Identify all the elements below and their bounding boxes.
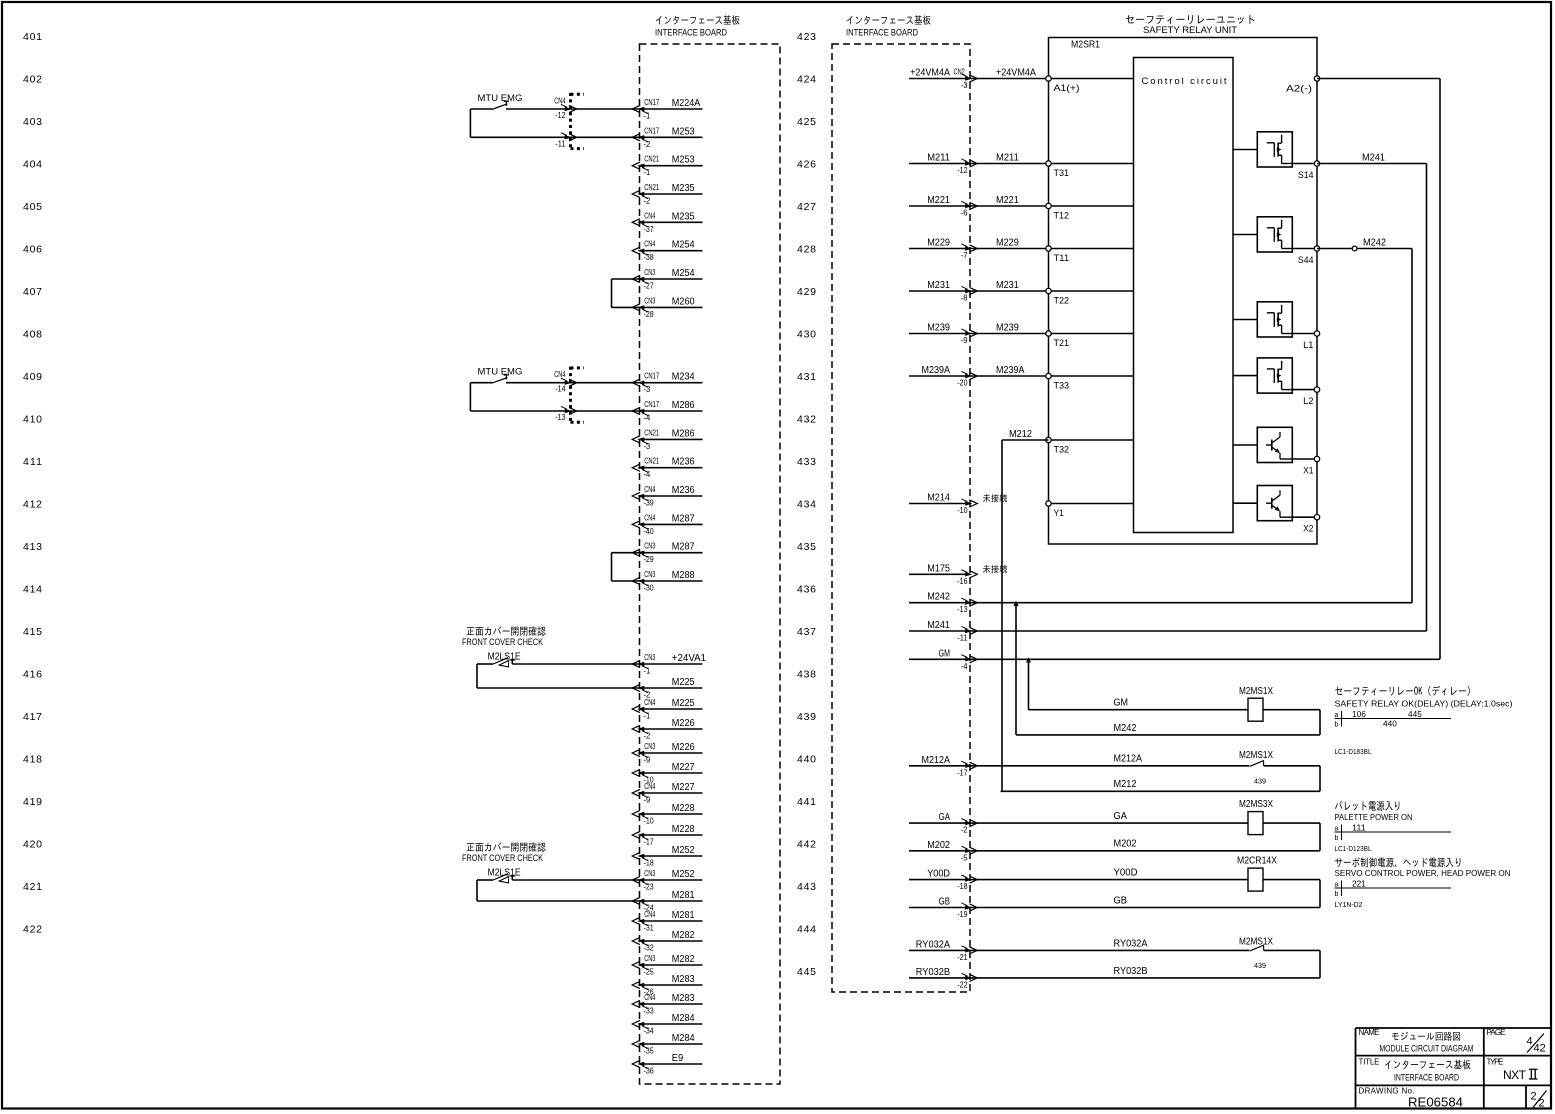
annotation: palette power on — [1335, 801, 1452, 853]
svg-text:-1: -1 — [644, 112, 651, 121]
svg-text:427: 427 — [797, 201, 816, 213]
svg-text:-18: -18 — [957, 882, 968, 891]
svg-text:42: 42 — [1534, 1043, 1546, 1055]
svg-text:SERVO CONTROL POWER, HEAD POWE: SERVO CONTROL POWER, HEAD POWER ON — [1335, 868, 1511, 878]
svg-text:429: 429 — [797, 286, 816, 298]
connector pin CN2-2 net GA — [909, 812, 977, 835]
terminal S44 — [1298, 246, 1320, 266]
connector pin CN2-17 net M212A — [909, 755, 977, 778]
svg-text:S44: S44 — [1298, 255, 1314, 266]
svg-text:-11: -11 — [555, 139, 566, 148]
wire M231 to relay unit — [970, 280, 1049, 291]
svg-text:435: 435 — [797, 541, 816, 553]
terminal T22 — [1046, 288, 1134, 306]
svg-text:CN4: CN4 — [554, 370, 566, 379]
svg-text:-1: -1 — [644, 667, 651, 676]
connector pin CN2-3 net +24VM4A — [909, 68, 977, 91]
svg-text:FRONT COVER CHECK: FRONT COVER CHECK — [462, 853, 543, 863]
connector pin CN3-29 net M287 — [632, 542, 702, 565]
svg-text:-10: -10 — [644, 817, 655, 826]
svg-text:M212: M212 — [1009, 429, 1032, 440]
svg-text:M212: M212 — [1114, 779, 1137, 790]
svg-text:M254: M254 — [672, 268, 695, 279]
terminal Y1 — [1046, 501, 1134, 519]
svg-text:-30: -30 — [644, 584, 655, 593]
annotation: servo control power, head power on — [1335, 857, 1511, 909]
svg-text:439: 439 — [797, 711, 816, 723]
svg-text:NAME: NAME — [1359, 1028, 1380, 1037]
svg-text:-9: -9 — [644, 796, 651, 805]
svg-text:-2: -2 — [644, 197, 651, 206]
svg-text:CN21: CN21 — [644, 155, 659, 164]
svg-text:M286: M286 — [672, 428, 695, 439]
svg-text:-7: -7 — [961, 251, 968, 260]
svg-text:M225: M225 — [672, 677, 695, 688]
svg-text:MTU EMG: MTU EMG — [478, 93, 523, 104]
svg-text:-10: -10 — [957, 506, 968, 515]
svg-text:M229: M229 — [996, 238, 1019, 249]
svg-text:PALETTE POWER ON: PALETTE POWER ON — [1335, 812, 1413, 822]
svg-text:X1: X1 — [1303, 466, 1313, 477]
connector pin -26 net M283 — [632, 974, 702, 997]
wire loop CN3-27 to CN3-28 — [612, 279, 640, 307]
svg-text:M286: M286 — [672, 400, 695, 411]
connector pin CN4-31 net M281 — [632, 910, 702, 933]
svg-text:M2SR1: M2SR1 — [1071, 40, 1100, 51]
svg-text:LC1-D183BL: LC1-D183BL — [1335, 747, 1372, 756]
svg-text:M253: M253 — [672, 126, 695, 137]
connector pin -2 net M225 — [632, 677, 702, 700]
svg-text:M242: M242 — [1114, 723, 1137, 734]
svg-text:RE06584: RE06584 — [1408, 1095, 1463, 1110]
svg-text:T12: T12 — [1054, 211, 1070, 222]
svg-text:CN4: CN4 — [644, 211, 656, 220]
svg-text:M2CR14X: M2CR14X — [1237, 856, 1277, 867]
svg-text:439: 439 — [1254, 777, 1266, 786]
svg-text:b: b — [1335, 891, 1339, 898]
connector pin -24 net M281 — [632, 890, 702, 913]
svg-text:M202: M202 — [1114, 839, 1137, 850]
svg-text:TITLE: TITLE — [1359, 1058, 1380, 1067]
wire M221 to relay unit — [970, 195, 1049, 206]
wire A2(-) to GM bus — [1317, 79, 1440, 660]
svg-text:-13: -13 — [957, 605, 968, 614]
line numbers 423-445 — [797, 31, 816, 978]
svg-text:436: 436 — [797, 584, 816, 596]
terminal T32 — [1046, 437, 1134, 455]
svg-text:M228: M228 — [672, 803, 695, 814]
interface board (right) dashed outline — [832, 44, 970, 992]
connector pin CN2-5 net M202 — [909, 840, 977, 863]
terminal X2 — [1303, 515, 1320, 535]
control circuit block — [1134, 58, 1234, 533]
switch MTU EMG (upper) — [470, 93, 639, 150]
svg-text:-32: -32 — [644, 944, 655, 953]
svg-text:S14: S14 — [1298, 170, 1314, 181]
svg-text:+24VM4A: +24VM4A — [996, 68, 1036, 79]
svg-text:428: 428 — [797, 244, 816, 256]
svg-text:M2MS3X: M2MS3X — [1239, 799, 1273, 810]
svg-text:M2MS1X: M2MS1X — [1239, 937, 1273, 948]
svg-text:445: 445 — [1408, 710, 1422, 719]
svg-text:423: 423 — [797, 31, 816, 43]
svg-text:445: 445 — [797, 966, 816, 978]
svg-text:404: 404 — [23, 159, 42, 171]
svg-text:CN3: CN3 — [644, 653, 656, 662]
svg-text:M221: M221 — [996, 195, 1019, 206]
relay contact M2MS1X rung (M212A / M212) — [970, 750, 1320, 791]
connector pin CN17-2 net M253 — [632, 126, 702, 149]
svg-text:M227: M227 — [672, 782, 695, 793]
svg-text:426: 426 — [797, 159, 816, 171]
terminal S14 — [1298, 161, 1320, 181]
svg-text:-21: -21 — [957, 953, 968, 962]
svg-text:-4: -4 — [961, 662, 968, 671]
svg-text:+24VA1: +24VA1 — [672, 653, 707, 664]
svg-text:-3: -3 — [961, 81, 968, 90]
svg-text:CN17: CN17 — [644, 126, 659, 135]
svg-text:M234: M234 — [672, 372, 695, 383]
svg-text:106: 106 — [1352, 710, 1366, 719]
svg-text:CN3: CN3 — [644, 742, 656, 751]
connector pin CN17-1 net M224A — [632, 98, 702, 121]
relay coil M2CR14X rung (Y00D / GB) — [970, 856, 1320, 908]
svg-text:DRAWING No.: DRAWING No. — [1359, 1087, 1415, 1096]
svg-text:CN4: CN4 — [644, 782, 656, 791]
connector pin CN2-18 net Y00D — [909, 869, 977, 892]
svg-text:440: 440 — [1383, 720, 1397, 729]
svg-text:439: 439 — [1254, 961, 1266, 970]
svg-text:420: 420 — [23, 839, 42, 851]
svg-text:M253: M253 — [672, 155, 695, 166]
svg-text:-37: -37 — [644, 225, 655, 234]
svg-text:4: 4 — [1527, 1036, 1533, 1048]
svg-text:CN17: CN17 — [644, 372, 659, 381]
svg-text:401: 401 — [23, 31, 42, 43]
svg-text:A2(-): A2(-) — [1286, 84, 1312, 95]
svg-text:-17: -17 — [957, 768, 968, 777]
svg-text:CN3: CN3 — [644, 268, 656, 277]
svg-text:A1(+): A1(+) — [1054, 83, 1080, 94]
svg-text:L2: L2 — [1303, 396, 1313, 407]
svg-text:405: 405 — [23, 201, 42, 213]
svg-text:M175: M175 — [927, 563, 950, 574]
svg-text:417: 417 — [23, 711, 42, 723]
svg-text:X2: X2 — [1303, 524, 1313, 535]
svg-text:M284: M284 — [672, 1033, 695, 1044]
connector pin -36 net E9 — [632, 1053, 702, 1076]
svg-text:RY032A: RY032A — [1114, 939, 1148, 950]
svg-text:Y1: Y1 — [1054, 508, 1064, 519]
connector pin -10 net M228 — [632, 803, 702, 826]
svg-text:-35: -35 — [644, 1047, 655, 1056]
svg-text:-27: -27 — [644, 282, 655, 291]
svg-text:-33: -33 — [644, 1007, 655, 1016]
connector pin CN2-10 net M214 — [909, 493, 977, 516]
connector pin CN2-19 net GB — [909, 897, 977, 920]
svg-text:431: 431 — [797, 371, 816, 383]
svg-text:M287: M287 — [672, 542, 695, 553]
relay contact M2MS1X rung (RY032A / RY032B) — [970, 937, 1320, 978]
svg-text:M282: M282 — [672, 930, 695, 941]
connector pin CN4-37 net M235 — [632, 211, 702, 234]
svg-text:CN21: CN21 — [644, 183, 659, 192]
svg-text:-39: -39 — [644, 499, 655, 508]
wire M229 to relay unit — [970, 238, 1049, 249]
connector pin CN3-28 net M260 — [632, 296, 702, 319]
wire M212 riser from T32 — [1002, 429, 1049, 791]
svg-text:-34: -34 — [644, 1027, 655, 1036]
svg-text:M212A: M212A — [1114, 754, 1143, 765]
svg-text:-4: -4 — [644, 414, 651, 423]
svg-text:M214: M214 — [927, 493, 950, 504]
connector pin CN4-1 net M225 — [632, 698, 702, 721]
svg-text:-31: -31 — [644, 924, 655, 933]
svg-text:M242: M242 — [1363, 238, 1386, 249]
svg-text:M212A: M212A — [922, 755, 951, 766]
svg-text:b: b — [1335, 722, 1339, 729]
svg-text:2: 2 — [1531, 1091, 1537, 1103]
svg-text:SAFETY RELAY UNIT: SAFETY RELAY UNIT — [1143, 25, 1237, 36]
terminal L1 — [1303, 331, 1320, 351]
svg-text:-6: -6 — [961, 209, 968, 218]
svg-text:Y00D: Y00D — [1114, 868, 1138, 879]
svg-text:CN3: CN3 — [644, 869, 656, 878]
limit switch M2LS1E (upper front cover check) — [462, 626, 640, 688]
wire M211 to relay unit — [970, 153, 1049, 164]
svg-text:432: 432 — [797, 414, 816, 426]
svg-text:-3: -3 — [644, 385, 651, 394]
svg-text:-20: -20 — [957, 379, 968, 388]
connector pin CN2-13 net M242 — [909, 592, 977, 615]
svg-text:T31: T31 — [1054, 168, 1070, 179]
svg-text:M231: M231 — [927, 280, 950, 291]
svg-text:CN3: CN3 — [644, 570, 656, 579]
svg-text:221: 221 — [1352, 880, 1366, 889]
svg-text:-12: -12 — [555, 111, 566, 120]
wire loop CN3-29 to CN3-30 — [612, 553, 640, 581]
svg-text:-18: -18 — [644, 859, 655, 868]
svg-text:-13: -13 — [555, 413, 566, 422]
svg-text:GA: GA — [1114, 811, 1128, 822]
svg-text:CN4: CN4 — [644, 698, 656, 707]
svg-text:M252: M252 — [672, 869, 695, 880]
svg-text:2: 2 — [1539, 1098, 1545, 1110]
svg-text:-9: -9 — [961, 336, 968, 345]
svg-text:M226: M226 — [672, 742, 695, 753]
svg-text:INTERFACE BOARD: INTERFACE BOARD — [1394, 1073, 1459, 1083]
svg-text:T22: T22 — [1054, 296, 1070, 307]
svg-text:M282: M282 — [672, 954, 695, 965]
terminal X1 — [1303, 456, 1320, 476]
svg-text:CN21: CN21 — [644, 428, 659, 437]
unconnected note M214 — [983, 494, 1007, 502]
connector pin CN17-4 net M286 — [632, 400, 702, 423]
svg-text:CN3: CN3 — [644, 954, 656, 963]
svg-text:RY032B: RY032B — [916, 967, 950, 978]
svg-text:-9: -9 — [644, 756, 651, 765]
svg-text:CN4: CN4 — [644, 485, 656, 494]
svg-text:-29: -29 — [644, 555, 655, 564]
svg-text:CN2: CN2 — [954, 68, 966, 77]
svg-text:M227: M227 — [672, 762, 695, 773]
terminal T31 — [1046, 161, 1134, 179]
svg-text:T11: T11 — [1054, 253, 1070, 264]
svg-text:INTERFACE BOARD: INTERFACE BOARD — [846, 28, 918, 38]
connector pin CN2-6 net M221 — [909, 195, 977, 218]
unconnected note M175 — [983, 565, 1007, 573]
output transistor L2 — [1233, 358, 1317, 393]
svg-text:-17: -17 — [644, 838, 655, 847]
line numbers 401-422 — [23, 31, 42, 936]
svg-text:Y00D: Y00D — [927, 869, 950, 880]
svg-text:440: 440 — [797, 754, 816, 766]
svg-text:M221: M221 — [927, 195, 950, 206]
svg-text:413: 413 — [23, 541, 42, 553]
svg-text:410: 410 — [23, 414, 42, 426]
annotation: safety relay OK (delay) — [1335, 686, 1513, 756]
svg-text:433: 433 — [797, 456, 816, 468]
connector pin CN2-16 net M175 — [909, 563, 977, 586]
svg-text:LC1-D123BL: LC1-D123BL — [1335, 844, 1372, 853]
svg-text:406: 406 — [23, 244, 42, 256]
svg-text:CN4: CN4 — [644, 910, 656, 919]
svg-text:442: 442 — [797, 839, 816, 851]
svg-text:M239: M239 — [996, 323, 1019, 334]
svg-text:E9: E9 — [672, 1053, 684, 1064]
svg-text:M231: M231 — [996, 280, 1019, 291]
svg-text:430: 430 — [797, 329, 816, 341]
svg-text:GM: GM — [1114, 698, 1129, 709]
connector pin CN3-25 net M282 — [632, 954, 702, 977]
svg-text:-19: -19 — [957, 910, 968, 919]
svg-text:CN4: CN4 — [644, 993, 656, 1002]
svg-text:-5: -5 — [961, 853, 968, 862]
relay coil M2MS3X rung (GA / M202) — [970, 799, 1320, 851]
wire GM — [970, 657, 1440, 662]
svg-text:GM: GM — [939, 648, 950, 659]
connector pin CN3-30 net M288 — [632, 570, 702, 593]
terminal T11 — [1046, 246, 1134, 264]
connector pin -18 net M252 — [632, 845, 702, 868]
svg-text:-1: -1 — [644, 168, 651, 177]
svg-text:CN3: CN3 — [644, 296, 656, 305]
terminal A1(+) — [1046, 76, 1134, 94]
svg-text:CN4: CN4 — [554, 97, 566, 106]
svg-text:M226: M226 — [672, 718, 695, 729]
output transistor S14 — [1233, 132, 1317, 167]
svg-text:M241: M241 — [1362, 153, 1385, 164]
svg-text:RY032A: RY032A — [916, 939, 950, 950]
svg-text:409: 409 — [23, 371, 42, 383]
interface board (right) title — [846, 15, 931, 37]
svg-text:M236: M236 — [672, 485, 695, 496]
connector pin -17 net M228 — [632, 824, 702, 847]
svg-text:437: 437 — [797, 626, 816, 638]
connector pin CN21-2 net M235 — [632, 183, 702, 206]
svg-text:GA: GA — [939, 812, 951, 823]
svg-text:411: 411 — [23, 456, 42, 468]
svg-text:443: 443 — [797, 881, 816, 893]
svg-text:M242: M242 — [927, 592, 950, 603]
connector pin -34 net M284 — [632, 1013, 702, 1036]
safety relay unit M2SR1 outline — [1049, 38, 1318, 545]
connector pin -35 net M284 — [632, 1033, 702, 1056]
svg-text:M260: M260 — [672, 296, 695, 307]
svg-text:-40: -40 — [644, 527, 655, 536]
svg-text:M229: M229 — [927, 238, 950, 249]
connector pin CN17-3 net M234 — [632, 372, 702, 395]
svg-text:M288: M288 — [672, 570, 695, 581]
connector pin CN2-22 net RY032B — [909, 967, 977, 990]
svg-text:-2: -2 — [644, 732, 651, 741]
svg-text:M2MS1X: M2MS1X — [1239, 686, 1273, 697]
svg-text:M2LS1E: M2LS1E — [488, 652, 521, 663]
svg-text:M239A: M239A — [996, 365, 1025, 376]
svg-text:-1: -1 — [644, 712, 651, 721]
svg-text:-38: -38 — [644, 253, 655, 262]
svg-text:M284: M284 — [672, 1013, 695, 1024]
connector pin CN2-12 net M211 — [909, 153, 977, 176]
svg-text:L1: L1 — [1303, 340, 1313, 351]
wire M239 to relay unit — [970, 323, 1049, 334]
svg-text:T33: T33 — [1054, 381, 1070, 392]
connector pin CN2-20 net M239A — [909, 365, 977, 388]
svg-text:GB: GB — [1114, 896, 1128, 907]
connector pin CN4-39 net M236 — [632, 485, 702, 508]
svg-text:-16: -16 — [957, 577, 968, 586]
svg-text:SAFETY RELAY OK(DELAY) (DELAY:: SAFETY RELAY OK(DELAY) (DELAY:1.0sec) — [1335, 699, 1513, 709]
connector pin CN2-9 net M239 — [909, 323, 977, 346]
switch MTU EMG (lower) — [470, 367, 639, 424]
svg-text:-3: -3 — [644, 442, 651, 451]
svg-text:407: 407 — [23, 286, 42, 298]
svg-text:M2MS1X: M2MS1X — [1239, 750, 1273, 761]
svg-text:b: b — [1335, 835, 1339, 842]
svg-text:408: 408 — [23, 329, 42, 341]
connector pin CN3-23 net M252 — [632, 869, 702, 892]
svg-text:M239: M239 — [927, 323, 950, 334]
svg-text:M235: M235 — [672, 211, 695, 222]
svg-text:412: 412 — [23, 499, 42, 511]
connector pin CN4-9 net M227 — [632, 782, 702, 805]
connector pin CN3-9 net M226 — [632, 742, 702, 765]
svg-text:111: 111 — [1352, 824, 1366, 833]
svg-text:CN4: CN4 — [644, 240, 656, 249]
connector pin -32 net M282 — [632, 930, 702, 953]
interface board (left) dashed outline — [640, 44, 781, 1084]
svg-text:M211: M211 — [996, 153, 1019, 164]
svg-text:MTU EMG: MTU EMG — [478, 367, 523, 378]
connector pin CN2-7 net M229 — [909, 238, 977, 261]
svg-text:-2: -2 — [961, 826, 968, 835]
wire M241 (S14 output) — [970, 153, 1427, 632]
wire M239A to relay unit — [970, 365, 1049, 376]
svg-text:CN17: CN17 — [644, 400, 659, 409]
svg-text:-12: -12 — [957, 166, 968, 175]
svg-text:438: 438 — [797, 669, 816, 681]
svg-text:CN21: CN21 — [644, 457, 659, 466]
svg-text:TYPE: TYPE — [1487, 1058, 1504, 1067]
svg-text:PAGE: PAGE — [1487, 1028, 1506, 1037]
interface board (left) title — [655, 15, 740, 37]
connector pin CN2-4 net GM — [909, 648, 977, 671]
terminal A2(-) — [1286, 76, 1320, 95]
connector pin CN3-27 net M254 — [632, 268, 702, 291]
svg-text:M202: M202 — [927, 840, 950, 851]
svg-text:M239A: M239A — [922, 365, 951, 376]
svg-text:M241: M241 — [927, 620, 950, 631]
